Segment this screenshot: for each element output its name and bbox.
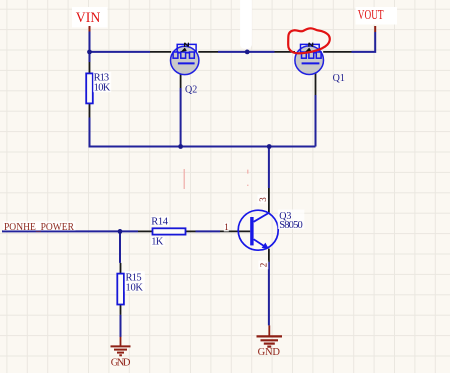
annotation red circle around Q1	[288, 28, 330, 53]
wire Q1 to VOUT	[352, 32, 376, 53]
wire R13 top blue	[89, 52, 91, 62]
svg-text:VOUT: VOUT	[358, 8, 384, 23]
resistor R14	[151, 216, 186, 247]
wire R13 to mid net	[89, 118, 91, 146]
resistor R15	[117, 271, 145, 304]
wire R14 right pin	[186, 230, 196, 232]
resistor R13	[86, 72, 111, 104]
transistor Q3 (NPN S8050)	[224, 195, 304, 270]
pin number 2	[259, 261, 269, 270]
wire Q2 to Q1	[218, 51, 275, 53]
transistor Q1 (PMOS)	[295, 43, 345, 84]
wire R15 to GND	[120, 315, 122, 337]
wire Q3 collector pin	[268, 188, 270, 213]
net label VOUT	[356, 7, 398, 32]
svg-text:PONHE_POWER: PONHE_POWER	[4, 222, 74, 233]
wire R14 to Q3 base	[196, 230, 221, 232]
svg-text:VIN: VIN	[76, 10, 101, 26]
wire pin Q2 right	[198, 51, 218, 53]
faint artifact line	[184, 169, 248, 189]
svg-text:10K: 10K	[94, 82, 111, 93]
wire Q3 emitter to GND	[268, 262, 270, 325]
junction node Q3 collector mid net	[267, 144, 272, 149]
transistor Q2 (PMOS)	[171, 43, 199, 96]
wire R13 bottom pin	[89, 103, 91, 117]
net label PONHE_POWER	[3, 222, 76, 234]
pin number 1	[224, 222, 229, 232]
net label VIN	[72, 7, 108, 32]
wire R14 left pin	[138, 230, 153, 232]
wire top net VIN to Q2	[90, 51, 151, 53]
junction node PONHE/R15	[118, 229, 123, 234]
svg-text:1K: 1K	[151, 236, 163, 247]
svg-text:3: 3	[258, 197, 268, 202]
wire Q1 gate to mid net	[315, 95, 317, 147]
svg-text:R14: R14	[151, 216, 168, 227]
svg-text:2: 2	[259, 263, 269, 268]
wire R15 top pin	[120, 263, 122, 274]
junction node VIN/R13/Q2Q1	[87, 50, 92, 55]
wire R15 bottom pin	[120, 305, 122, 315]
wire Q1 gate pin	[315, 63, 317, 95]
wire PONHE_POWER net	[2, 230, 138, 232]
junction node erased stub	[245, 50, 250, 55]
wire R13 top pin	[89, 52, 91, 74]
whiteout erase band	[240, 0, 252, 49]
wire pin Q1 right	[323, 51, 351, 53]
wire mid net horizontal	[89, 146, 316, 148]
ground GND right	[257, 325, 283, 358]
svg-text:Q2: Q2	[185, 84, 197, 95]
wire VIN vertical	[89, 32, 91, 52]
wire Q3 collector to mid net	[268, 147, 270, 189]
wire pin Q1 left	[275, 51, 296, 53]
pin number 3	[258, 195, 268, 204]
svg-text:1: 1	[224, 222, 229, 232]
svg-text:S8050: S8050	[279, 220, 303, 231]
wire Q3 emitter pin	[268, 249, 270, 262]
wire Q2 gate pin	[180, 63, 182, 88]
ground GND left	[111, 337, 131, 369]
wire R15 top	[119, 231, 121, 263]
wire pin Q2 left	[150, 51, 171, 53]
junction node Q2 gate mid net	[178, 144, 183, 149]
svg-text:Q1: Q1	[333, 73, 345, 84]
wire Q3 base pin	[220, 230, 250, 232]
svg-text:10K: 10K	[126, 282, 144, 293]
wire Q2 gate to mid net	[180, 88, 182, 147]
svg-text:GND: GND	[258, 347, 281, 358]
svg-text:GND: GND	[111, 358, 131, 369]
